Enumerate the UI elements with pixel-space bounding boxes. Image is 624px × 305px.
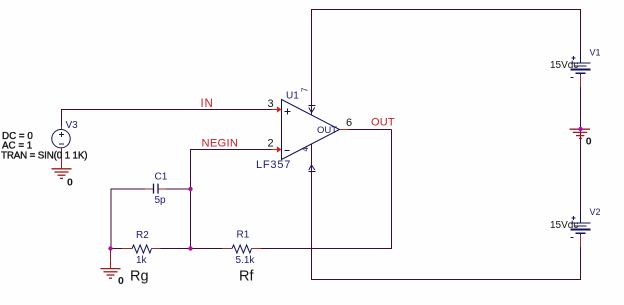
svg-text:7: 7	[301, 87, 310, 92]
V2 battery	[571, 213, 591, 235]
svg-text:V3: V3	[66, 120, 79, 131]
arrow into pin2	[277, 146, 282, 152]
V1 polarity marks	[571, 56, 576, 78]
ground at V3	[52, 148, 72, 178]
ground at supply node 0	[570, 129, 591, 138]
wire V1 bottom to ground node	[580, 73, 582, 129]
V3 plus mark	[59, 132, 64, 144]
svg-text:IN: IN	[201, 98, 214, 110]
svg-text:V2: V2	[590, 207, 601, 217]
V3 source circle	[52, 130, 70, 148]
junction dot R2 left	[108, 246, 112, 250]
svg-text:15Vdc: 15Vdc	[550, 220, 578, 231]
svg-text:NEGIN: NEGIN	[202, 138, 239, 150]
svg-text:Rf: Rf	[239, 268, 254, 284]
wire IN net V3 to pin3	[62, 110, 277, 127]
wire opamp output to OUT node	[349, 129, 392, 131]
arrow into pin3	[277, 106, 282, 112]
pin stub red: opamp pin6	[340, 129, 349, 131]
wire R1 right to output node	[261, 130, 392, 249]
op-amp plus input mark	[285, 109, 291, 151]
pin stub red: V1 bottom	[580, 74, 582, 87]
svg-text:3: 3	[268, 98, 274, 110]
svg-text:C1: C1	[155, 172, 168, 183]
ground at R2	[101, 249, 121, 278]
svg-text:0: 0	[586, 136, 592, 148]
svg-text:R1: R1	[237, 230, 250, 241]
V3 minus mark	[59, 143, 64, 145]
svg-text:OUT: OUT	[371, 116, 395, 128]
svg-text:1k: 1k	[136, 255, 148, 266]
op-amp minus input mark	[285, 150, 290, 152]
svg-text:Rg: Rg	[130, 268, 149, 284]
pin stub red: V2 bottom	[580, 234, 582, 247]
svg-text:2: 2	[268, 138, 274, 150]
op-amp U1 triangle	[282, 100, 340, 160]
V2 polarity marks	[571, 216, 576, 238]
wire top rail pin7 to V1	[312, 10, 581, 115]
pin stubs red: C1	[145, 188, 153, 190]
junction dot R2/R1 NEGIN	[188, 246, 192, 250]
svg-text:4: 4	[301, 147, 310, 152]
wire ground node to V2 top	[580, 129, 582, 213]
svg-text:0: 0	[118, 275, 124, 287]
power pin marker top (pin 7)	[309, 106, 316, 113]
R1 resistor zigzag	[232, 245, 252, 253]
svg-text:5p: 5p	[155, 195, 167, 206]
svg-text:15Vdc: 15Vdc	[550, 60, 578, 71]
C1 capacitor plates	[154, 184, 159, 194]
wire C1 right stub to NEGIN	[166, 188, 191, 190]
pin stub red: opamp pin3	[272, 109, 278, 111]
pin stub red: opamp pin2	[272, 149, 278, 151]
svg-text:6: 6	[346, 117, 352, 129]
V1 battery	[571, 53, 591, 75]
wire NEGIN net to pin2	[191, 150, 277, 249]
svg-text:5.1k: 5.1k	[236, 255, 256, 266]
wire bottom resistor row	[111, 248, 123, 250]
svg-text:R2: R2	[136, 230, 149, 241]
svg-text:OUT: OUT	[317, 125, 337, 136]
svg-text:U1: U1	[286, 90, 299, 101]
svg-text:0: 0	[67, 177, 73, 189]
power pin marker bottom (pin 4)	[309, 165, 316, 172]
svg-text:LF357: LF357	[256, 159, 291, 171]
junction dot C1 right	[188, 187, 192, 191]
svg-text:TRAN = SIN(0 1 1K): TRAN = SIN(0 1 1K)	[1, 151, 87, 162]
pin stub red: V3 top	[61, 126, 63, 130]
wire C1 left branch	[111, 189, 145, 248]
wire V2 bottom to bottom rail to pin4	[312, 144, 581, 280]
svg-text:V1: V1	[590, 48, 601, 58]
junction dot supply ground	[578, 127, 582, 131]
R2 resistor zigzag	[132, 245, 152, 253]
pin stubs red: R2	[122, 248, 133, 250]
V3 parameter text	[1, 131, 87, 162]
pin stubs red: R1	[223, 248, 233, 250]
